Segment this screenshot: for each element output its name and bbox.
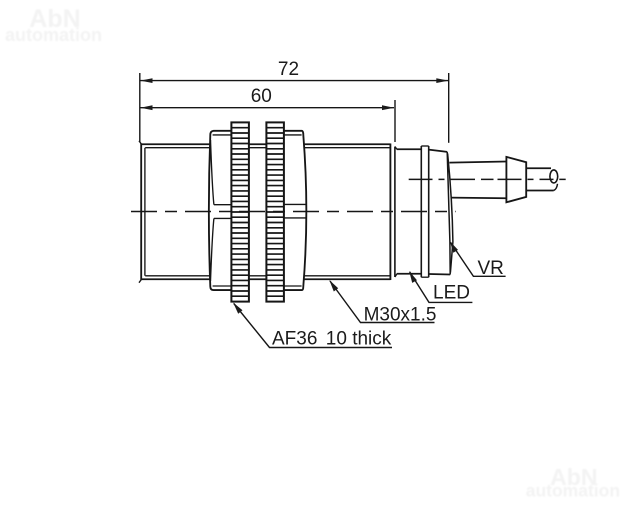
leader VR <box>451 242 506 276</box>
svg-text:60: 60 <box>251 86 272 107</box>
dimension 72 right arrowhead <box>436 78 448 83</box>
threaded barrel M30 <box>304 143 391 145</box>
dimension 60 line <box>141 107 395 109</box>
rear face (VR face) sliver <box>447 152 450 275</box>
svg-text:VR: VR <box>478 258 504 279</box>
svg-text:10 thick: 10 thick <box>326 329 392 350</box>
watermark top-left "AbN automation" <box>5 5 102 45</box>
nut2 serrated flange <box>266 122 284 301</box>
svg-text:automation: automation <box>5 25 102 45</box>
svg-text:M30x1.5: M30x1.5 <box>364 305 437 326</box>
nut1 cone wedge lines <box>214 204 232 206</box>
nut2 hex body (right) <box>284 131 306 290</box>
svg-text:automation: automation <box>526 480 620 500</box>
rear cap <box>394 147 396 277</box>
svg-text:LED: LED <box>433 283 470 304</box>
exposed thread between nuts <box>249 143 267 145</box>
dimension 72 left arrowhead <box>140 78 152 83</box>
leader LED <box>410 272 473 303</box>
dimension 72 line <box>141 80 449 82</box>
connector plug <box>526 167 551 169</box>
nut2 cone wedge lines <box>284 203 306 205</box>
connector coupling taper <box>506 157 526 202</box>
leader M30x1.5 <box>330 281 435 323</box>
cable gland nozzle <box>449 162 506 163</box>
nut1 hex body (left) <box>209 131 232 290</box>
leader AF36 <box>234 304 392 348</box>
nut1 serrated flange <box>231 122 249 301</box>
watermark bottom-right "AbN automation" <box>526 464 620 500</box>
left cylinder corner chamfers <box>139 141 142 145</box>
dimension 60 right arrowhead <box>382 105 394 110</box>
svg-text:AF36: AF36 <box>272 329 317 350</box>
connector centerline <box>409 178 566 180</box>
barrel rear face <box>389 144 391 281</box>
dimension 60 left arrowhead <box>140 105 152 110</box>
extension line right of 60 <box>394 100 396 142</box>
extension line right of 72 <box>448 73 450 143</box>
left cylinder (sensing head) <box>141 143 210 145</box>
extension line left <box>139 73 141 142</box>
LED ring <box>420 146 422 277</box>
svg-text:72: 72 <box>278 59 299 80</box>
body centerline <box>131 211 456 213</box>
